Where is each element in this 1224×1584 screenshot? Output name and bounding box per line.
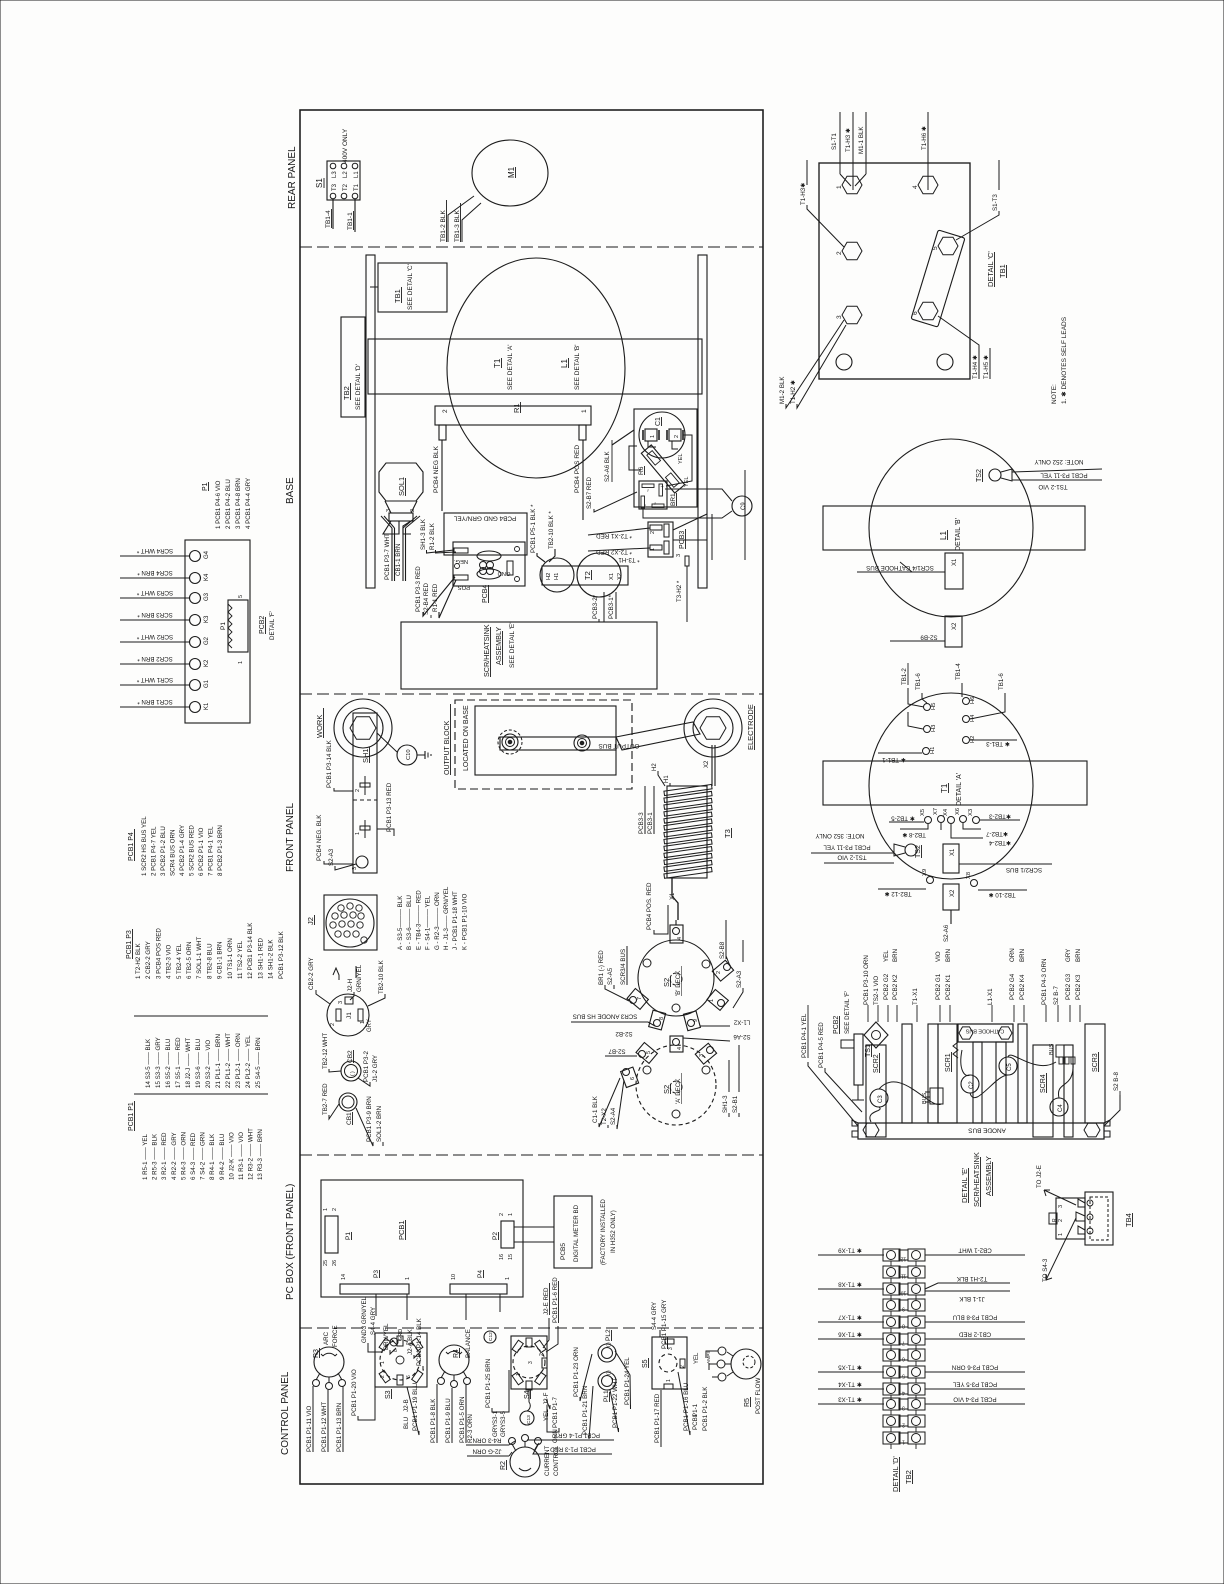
svg-text:PCB3-3: PCB3-3	[638, 812, 645, 834]
svg-text:SCR3 WHT *: SCR3 WHT *	[136, 589, 173, 596]
pilot lamp PL2	[598, 1329, 616, 1362]
potentiometer R2	[509, 1435, 542, 1478]
svg-text:3: 3	[1058, 1205, 1064, 1208]
svg-text:GRY: GRY	[500, 1424, 507, 1437]
capacitor C12	[484, 1331, 496, 1343]
svg-text:K3: K3	[204, 615, 210, 623]
svg-text:S2-A3: S2-A3	[328, 848, 335, 866]
svg-text:3: 3	[676, 554, 682, 557]
label TS2 (L1)	[976, 469, 983, 482]
heatsink fin SCR3	[1085, 1024, 1105, 1123]
svg-text:PCB1 P3-11 YEL: PCB1 P3-11 YEL	[1040, 472, 1088, 479]
label SH1-3 BLK wire	[420, 518, 454, 553]
svg-text:1: 1	[405, 1277, 411, 1280]
label T1 DETAIL A	[940, 773, 963, 806]
svg-text:2: 2	[499, 1213, 505, 1216]
S2 A deck terminal 6	[621, 1067, 639, 1087]
svg-text:PCB1 P3-4 VIO: PCB1 P3-4 VIO	[953, 1396, 997, 1403]
PCB2 gate/cathode terminals	[190, 550, 211, 561]
T1 detail A circle	[869, 693, 1033, 879]
label PCB3-2	[592, 592, 604, 622]
svg-text:SCR3: SCR3	[1092, 1053, 1099, 1072]
svg-text:1: 1	[360, 1021, 366, 1024]
wires P2 to PCB5	[505, 1196, 554, 1242]
label L1-X2	[700, 1019, 750, 1027]
terminal strip TB2 ladder	[883, 1249, 925, 1449]
svg-text:PCB1 P3-9 BRN: PCB1 P3-9 BRN	[366, 1096, 373, 1142]
label TB1-1 (T1)	[878, 753, 922, 763]
list PCB1 P4	[128, 829, 135, 861]
svg-text:GND: GND	[498, 570, 511, 576]
capacitor C13	[520, 1389, 534, 1425]
svg-text:TB1-3 BLK: TB1-3 BLK	[454, 210, 461, 242]
svg-text:PCB1 P1-12 WHT: PCB1 P1-12 WHT	[321, 1402, 328, 1452]
label PCB1 P3-7 WHT	[384, 533, 391, 580]
L1 detail B circle	[869, 439, 1033, 617]
svg-text:J2: J2	[306, 917, 315, 925]
label CB1-1 BRN	[395, 544, 402, 576]
svg-text:12 R3-2 —— WHT: 12 R3-2 —— WHT	[248, 1128, 255, 1180]
svg-text:1: 1	[505, 1277, 511, 1280]
svg-text:S2 B-8: S2 B-8	[1113, 1072, 1120, 1091]
output block inner box	[475, 706, 616, 775]
label PCB1 P3-3 RED	[415, 566, 455, 616]
TB1 terminal 1	[836, 176, 862, 193]
svg-text:DIGITAL METER BD: DIGITAL METER BD	[573, 1204, 580, 1262]
svg-text:S2-B2: S2-B2	[615, 1030, 633, 1037]
svg-text:SCR2/1 BUS: SCR2/1 BUS	[1006, 866, 1042, 873]
svg-text:S3-5: S3-5	[500, 1410, 507, 1424]
label PCB4 NEG BLK (SH1)	[316, 814, 353, 864]
svg-text:J2-G ORN: J2-G ORN	[473, 1448, 502, 1455]
svg-text:E - TB4-3——— RED: E - TB4-3——— RED	[415, 890, 422, 950]
svg-text:CB2-1 WHT: CB2-1 WHT	[958, 1247, 992, 1254]
svg-text:SCR1 WHT *: SCR1 WHT *	[136, 676, 173, 683]
svg-text:( ): ( )	[606, 1342, 612, 1347]
svg-text:TB2-10 BLK *: TB2-10 BLK *	[548, 511, 555, 549]
svg-text:C10: C10	[406, 749, 412, 760]
svg-text:J2-A BLK: J2-A BLK	[407, 1328, 414, 1355]
label 400V ONLY	[342, 128, 349, 163]
electrode bus angled bar	[616, 722, 700, 750]
svg-text:H2: H2	[546, 573, 552, 580]
svg-text:SEE DETAIL 'F': SEE DETAIL 'F'	[844, 991, 851, 1034]
svg-text:M1: M1	[507, 166, 516, 178]
svg-text:TB2-12 ✱: TB2-12 ✱	[884, 890, 911, 897]
svg-text:11 R3-1 —— VIO: 11 R3-1 —— VIO	[238, 1132, 245, 1180]
svg-text:T2-H1 BLK: T2-H1 BLK	[956, 1275, 987, 1282]
wire upper rail to TB1 box	[370, 255, 378, 287]
svg-text:26: 26	[332, 1260, 338, 1266]
svg-text:X1: X1	[952, 558, 958, 566]
svg-text:PCB3-1: PCB3-1	[647, 812, 654, 834]
svg-text:14: 14	[341, 1274, 347, 1280]
svg-text:PCB2 K1: PCB2 K1	[945, 974, 952, 1000]
svg-text:PCB1 P1-23 ORN: PCB1 P1-23 ORN	[573, 1347, 580, 1397]
label TB2-10 BLK (J1)	[368, 959, 385, 1006]
S2 B deck terminal 1	[707, 989, 728, 1010]
svg-text:PCB5: PCB5	[560, 1243, 567, 1260]
TB4 arrow TO S4-3	[1042, 1218, 1076, 1282]
TB1 terminal 3	[836, 306, 862, 323]
svg-text:PCB1 P3-13 RED: PCB1 P3-13 RED	[386, 782, 393, 832]
svg-text:2: 2	[836, 251, 843, 255]
svg-text:GRN/YEL: GRN/YEL	[356, 964, 363, 992]
S2 A deck terminal 5	[636, 1042, 657, 1063]
TB2 ladder right wires	[925, 1247, 1025, 1256]
svg-text:✱ T1-X5: ✱ T1-X5	[838, 1364, 862, 1371]
svg-text:PCB1 P1-3 RED: PCB1 P1-3 RED	[550, 1446, 596, 1453]
svg-text:J2-F: J2-F	[543, 1392, 550, 1405]
detail E curved wires	[870, 1050, 1073, 1122]
thermostat TS2 (L1)	[989, 469, 1012, 481]
svg-text:C5: C5	[1007, 1063, 1013, 1071]
label DETAIL E	[960, 1152, 993, 1207]
svg-text:PCB1 P5-1 BLK *: PCB1 P5-1 BLK *	[530, 504, 537, 553]
svg-text:1: 1	[380, 1361, 386, 1364]
svg-text:✱ T1-X9: ✱ T1-X9	[838, 1247, 862, 1254]
svg-text:1 T2-H2 BLK: 1 T2-H2 BLK	[135, 942, 142, 979]
S2 A deck terminal 3	[695, 1043, 716, 1064]
TB1 terminal 5	[932, 237, 958, 254]
svg-text:DETAIL 'C': DETAIL 'C'	[986, 251, 995, 287]
svg-text:X3: X3	[968, 809, 974, 816]
svg-text:15: 15	[508, 1254, 514, 1260]
panel divider rear/base	[300, 246, 763, 248]
wire base right column	[712, 470, 745, 560]
transformer T1/L1 circle	[447, 258, 625, 478]
TB1 top labels	[831, 126, 928, 154]
bridge rectifier BR1	[639, 481, 677, 509]
svg-text:H5: H5	[931, 703, 937, 710]
svg-text:✱TB2-4: ✱TB2-4	[988, 839, 1011, 846]
svg-text:S2-A6: S2-A6	[733, 1033, 751, 1040]
svg-text:ASSEMBLY: ASSEMBLY	[984, 1156, 993, 1196]
T1 terminals X	[920, 808, 980, 887]
svg-text:2: 2	[650, 531, 656, 534]
pcb PCB5 digital meter board	[554, 1196, 592, 1268]
svg-text:K - PCB1 P1-10 VIO: K - PCB1 P1-10 VIO	[461, 893, 468, 950]
label SCR2/1 BUS	[959, 864, 1052, 873]
T1 detail A bar	[823, 761, 1087, 805]
label J2	[306, 915, 315, 925]
svg-text:TS2: TS2	[976, 469, 983, 482]
svg-text:SCR3 ANODE HS BUS: SCR3 ANODE HS BUS	[573, 1013, 638, 1020]
svg-text:PCB1 P1-7: PCB1 P1-7	[552, 1396, 559, 1428]
svg-text:PCB1 P1-13 BRN: PCB1 P1-13 BRN	[336, 1403, 343, 1452]
TB1 left label T1-H3	[800, 160, 844, 247]
svg-text:BUS: BUS	[1049, 1043, 1055, 1055]
svg-text:S3-1: S3-1	[492, 1410, 499, 1424]
TB1 labels M1-2 T1-H2	[779, 320, 846, 408]
svg-text:X4: X4	[943, 808, 949, 816]
svg-text:SCR/HEATSINK: SCR/HEATSINK	[482, 624, 491, 677]
svg-text:S2-A3: S2-A3	[736, 970, 743, 988]
svg-text:10: 10	[901, 1290, 907, 1296]
heatsink fin 3	[928, 1024, 938, 1123]
svg-text:X8: X8	[966, 872, 972, 879]
svg-text:25: 25	[323, 1260, 329, 1266]
wire S1 to TB1-4	[325, 199, 333, 229]
svg-text:PCB2 G4: PCB2 G4	[1009, 973, 1016, 1000]
svg-text:9 R4-2 —— BLU: 9 R4-2 —— BLU	[219, 1134, 226, 1180]
svg-text:R1-2 BLK: R1-2 BLK	[429, 522, 436, 550]
svg-text:5: 5	[238, 595, 244, 598]
svg-text:BRN: BRN	[945, 949, 952, 962]
TB2 ladder left wires	[818, 1247, 884, 1256]
snubber cap C4	[1050, 1098, 1068, 1116]
svg-text:L2: L2	[343, 171, 349, 178]
svg-text:S4: S4	[524, 1390, 531, 1399]
T3 lead X2 to electrode	[704, 745, 715, 786]
svg-text:SCR4 BUS ORN: SCR4 BUS ORN	[170, 830, 177, 876]
svg-text:L1: L1	[560, 359, 569, 368]
label S2-B7 (A deck)	[605, 1048, 637, 1057]
svg-text:6: 6	[406, 1375, 412, 1378]
svg-text:PCB2 K2: PCB2 K2	[892, 974, 899, 1000]
svg-text:1: 1	[902, 1439, 905, 1445]
T1 L1 mounting rectangle	[368, 339, 702, 394]
svg-text:1: 1	[238, 661, 244, 664]
svg-text:12: 12	[901, 1256, 907, 1262]
T3 lead X1	[670, 878, 678, 920]
svg-text:P1: P1	[345, 1232, 352, 1240]
T1 terminals H	[923, 697, 977, 755]
svg-text:C9: C9	[741, 502, 747, 510]
label factory installed	[600, 1199, 617, 1265]
svg-text:X1: X1	[950, 848, 956, 856]
label T3-H1	[618, 556, 640, 563]
svg-text:S1-T1: S1-T1	[831, 133, 838, 150]
svg-text:TS1-2 VIO: TS1-2 VIO	[1038, 483, 1067, 490]
svg-text:PCB1: PCB1	[397, 1220, 406, 1240]
svg-text:1: 1	[1058, 1233, 1064, 1236]
connector J2	[324, 895, 377, 950]
svg-text:20 S3-2 —— VIO: 20 S3-2 —— VIO	[205, 1040, 212, 1088]
svg-text:1. ✱ DENOTES SELF LEADS: 1. ✱ DENOTES SELF LEADS	[1060, 316, 1068, 404]
svg-text:1 PCB1 P4-6 VIO: 1 PCB1 P4-6 VIO	[215, 480, 222, 529]
anode bus bar	[858, 1123, 1104, 1139]
resistor R1	[435, 402, 591, 440]
svg-text:3: 3	[668, 1347, 674, 1350]
wire M1 TB1-2 BLK	[440, 196, 474, 242]
label S2-B8	[719, 920, 730, 966]
svg-text:NEG.: NEG.	[454, 558, 469, 564]
svg-text:S2: S2	[662, 1085, 671, 1094]
svg-text:SCR2 BRN *: SCR2 BRN *	[137, 655, 173, 662]
svg-text:S2-B7: S2-B7	[608, 1048, 626, 1055]
label SH1-3 S2-B1	[722, 1045, 739, 1117]
label AMPS (R5)	[706, 1350, 712, 1364]
panel divider pcbox/control	[300, 1327, 763, 1329]
heatsink fin 4	[973, 1042, 982, 1123]
svg-text:8: 8	[659, 1017, 665, 1020]
svg-text:SEE DETAIL 'E': SEE DETAIL 'E'	[509, 623, 516, 668]
svg-text:DETAIL 'F': DETAIL 'F'	[269, 611, 276, 640]
svg-text:2: 2	[330, 1023, 336, 1026]
S3 wire labels bottom	[351, 1369, 419, 1435]
svg-text:AMPS: AMPS	[706, 1350, 712, 1364]
svg-text:PCB1 P3-2: PCB1 P3-2	[363, 1050, 370, 1082]
TS2 L1 labels	[1012, 458, 1102, 490]
svg-text:J1-2 GRY: J1-2 GRY	[372, 1055, 379, 1082]
svg-text:PCB1 P1-9 BLU: PCB1 P1-9 BLU	[445, 1398, 452, 1443]
label PCB1 P5-1 BLK	[530, 504, 545, 562]
svg-text:ARC: ARC	[323, 1331, 330, 1345]
PL2 wire labels	[573, 1347, 631, 1409]
wire M1 TB1-3 BLK	[454, 203, 481, 242]
svg-text:2: 2	[902, 1422, 905, 1428]
svg-text:S5: S5	[642, 1359, 649, 1368]
label S2-B7 RED	[586, 476, 637, 512]
switch S1	[315, 161, 360, 200]
svg-text:J1-1 BLK: J1-1 BLK	[958, 1295, 984, 1302]
heatsink fin 7	[1064, 1045, 1073, 1137]
T1 terminal X2	[943, 884, 959, 910]
svg-text:1: 1	[650, 548, 656, 551]
label PCB2 SEE DETAIL F (E)	[833, 991, 851, 1034]
TB1 detail C box	[819, 163, 970, 379]
svg-text:✱TB2-3: ✱TB2-3	[988, 813, 1011, 820]
svg-text:H - J1-3—— GRN/YEL: H - J1-3—— GRN/YEL	[443, 886, 450, 950]
svg-text:H6: H6	[970, 697, 976, 704]
svg-text:TB2-7 RED: TB2-7 RED	[322, 1083, 329, 1115]
svg-text:A - S3-5——— BLK: A - S3-5——— BLK	[397, 895, 404, 950]
svg-text:R5: R5	[744, 1398, 751, 1407]
TB1 wires top	[840, 112, 928, 190]
svg-text:WORK: WORK	[315, 715, 324, 738]
svg-text:DETAIL 'D': DETAIL 'D'	[891, 1456, 900, 1492]
label PCB3-1	[608, 592, 616, 619]
svg-text:YEL: YEL	[678, 454, 684, 464]
svg-text:6: 6	[630, 1077, 636, 1080]
label T2-X2 S2-A4	[601, 1080, 624, 1129]
TB4 arrow TO J2-E	[1036, 1165, 1076, 1205]
machine outline frame	[300, 110, 763, 1484]
section label REAR PANEL	[287, 146, 298, 209]
heatsink fin SCR2	[866, 1045, 886, 1137]
svg-text:8 R4-1 —— BLK: 8 R4-1 —— BLK	[209, 1133, 216, 1180]
svg-text:SCR1 BRN *: SCR1 BRN *	[137, 698, 173, 705]
svg-text:BRN: BRN	[1075, 949, 1082, 962]
svg-text:PCB1 P4: PCB1 P4	[128, 832, 135, 861]
svg-text:3 PCB2 P1-2 BLU: 3 PCB2 P1-2 BLU	[160, 826, 167, 876]
svg-text:SEE DETAIL 'D': SEE DETAIL 'D'	[355, 364, 362, 410]
wire GND3 to S3	[368, 1346, 383, 1352]
connector J1	[327, 994, 369, 1036]
svg-text:( ): ( )	[606, 1370, 612, 1375]
svg-text:S2-A6: S2-A6	[943, 924, 950, 942]
terminal board TB2 box	[341, 317, 365, 417]
snubber cap C5	[999, 1057, 1017, 1075]
label TS2 (T1)	[915, 845, 922, 858]
svg-text:2: 2	[539, 1353, 545, 1356]
svg-text:T3-H2 *: T3-H2 *	[676, 580, 683, 602]
label SCR3 ANODE HS BUS	[571, 1013, 655, 1027]
T1 H wires and labels	[901, 663, 1005, 729]
svg-text:1 SCR2 HS BUS YEL: 1 SCR2 HS BUS YEL	[141, 816, 148, 876]
svg-text:C1-1 BLK: C1-1 BLK	[592, 1095, 599, 1123]
label T3	[723, 828, 732, 838]
SCR3 bus tab	[1049, 1043, 1075, 1064]
svg-text:2: 2	[332, 1208, 338, 1211]
svg-text:CB1: CB1	[346, 1112, 353, 1125]
svg-text:GRY: GRY	[367, 1019, 373, 1032]
chassis rail upper	[366, 255, 375, 588]
svg-text:R: R	[1052, 1218, 1058, 1222]
svg-text:S2: S2	[662, 978, 671, 987]
pcb PCB4 board	[444, 513, 527, 590]
svg-text:T3: T3	[723, 829, 732, 838]
svg-text:1: 1	[516, 1373, 522, 1376]
terminal block TB4	[1049, 1192, 1113, 1245]
label S2-B2	[615, 1030, 633, 1037]
transformer T2	[540, 553, 628, 597]
svg-text:S2-B1: S2-B1	[732, 1095, 739, 1113]
svg-text:J2-E RED: J2-E RED	[543, 1287, 550, 1315]
label S5	[642, 1358, 649, 1368]
wire R1-2 PCB4 NEG BLK	[433, 440, 442, 511]
svg-text:13 SH1-1 RED: 13 SH1-1 RED	[257, 938, 264, 979]
T1 X wires and labels	[878, 813, 1027, 899]
svg-text:PCB1 P1-17 RED: PCB1 P1-17 RED	[654, 1393, 661, 1443]
rotary switch S2 B deck	[638, 940, 714, 1016]
svg-text:L1-X2: L1-X2	[733, 1019, 750, 1026]
label C1-1 BLK	[592, 1078, 620, 1127]
svg-text:PCB1 P1-5 ORN: PCB1 P1-5 ORN	[459, 1397, 466, 1443]
svg-text:OUTPUT BLOCK: OUTPUT BLOCK	[444, 720, 451, 775]
svg-text:H2: H2	[652, 763, 658, 771]
svg-text:PCB1 P3-5 YEL: PCB1 P3-5 YEL	[952, 1381, 997, 1388]
svg-text:H1: H1	[554, 573, 560, 580]
label GRY below J1	[367, 1019, 373, 1032]
svg-text:4 R2-2 —— GRY: 4 R2-2 —— GRY	[171, 1132, 178, 1180]
section label CONTROL PANEL	[280, 1371, 291, 1455]
rotary switch S2 A deck	[636, 1045, 716, 1125]
svg-text:PCB3-2*: PCB3-2*	[592, 594, 599, 619]
svg-text:1: 1	[508, 1213, 514, 1216]
svg-text:G - R2-3——— ORN: G - R2-3——— ORN	[434, 892, 441, 950]
svg-text:ASSEMBLY: ASSEMBLY	[494, 627, 503, 665]
svg-text:S2 B-7: S2 B-7	[1053, 986, 1060, 1005]
work stud	[334, 699, 392, 757]
svg-text:P1-1: P1-1	[692, 1403, 699, 1417]
svg-text:GRD: GRD	[398, 1329, 404, 1341]
svg-text:R1-1 RED: R1-1 RED	[432, 583, 439, 612]
svg-text:NOTE: 352 ONLY: NOTE: 352 ONLY	[815, 832, 864, 839]
rotary switch S3	[375, 1333, 427, 1387]
svg-text:SCR4 WHT *: SCR4 WHT *	[136, 547, 173, 554]
svg-text:7 S4-2 —— GRN: 7 S4-2 —— GRN	[200, 1132, 207, 1180]
electrode stud	[684, 699, 742, 757]
svg-text:C4: C4	[1058, 1104, 1064, 1112]
svg-text:TB4: TB4	[1124, 1213, 1133, 1227]
svg-text:SH1: SH1	[361, 748, 370, 763]
svg-text:PCB1 P4-3 ORN: PCB1 P4-3 ORN	[1041, 959, 1048, 1005]
svg-text:CONTROL PANEL: CONTROL PANEL	[280, 1371, 291, 1455]
svg-text:S2-A4: S2-A4	[610, 1107, 617, 1125]
svg-text:SCR2: SCR2	[873, 1054, 880, 1073]
potentiometer R4	[438, 1345, 471, 1388]
capacitor C1 group box	[634, 409, 697, 507]
svg-text:~: ~	[646, 489, 652, 492]
TB1 terminal 4	[912, 176, 938, 193]
label PCB1 P3-9 BRN (CB1)	[356, 1096, 373, 1146]
svg-text:J - PCB1 P1-18 WHT: J - PCB1 P1-18 WHT	[452, 891, 459, 950]
label BR1 (-) RED	[598, 950, 629, 1001]
anode bus right bolt	[1084, 1120, 1110, 1137]
label T2-X2 RED	[588, 548, 650, 555]
